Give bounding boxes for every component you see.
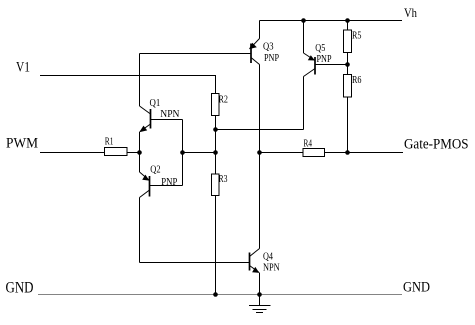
- svg-text:GND: GND: [6, 280, 34, 297]
- svg-text:PNP: PNP: [264, 53, 279, 64]
- svg-text:NPN: NPN: [160, 109, 179, 120]
- svg-text:R5: R5: [352, 31, 362, 42]
- svg-text:NPN: NPN: [263, 263, 280, 274]
- svg-text:R6: R6: [352, 75, 362, 86]
- svg-text:GND: GND: [403, 280, 430, 296]
- svg-text:Q5: Q5: [315, 43, 325, 54]
- svg-text:Q1: Q1: [150, 98, 161, 109]
- svg-text:R1: R1: [105, 137, 114, 148]
- svg-text:Vh: Vh: [404, 5, 417, 20]
- svg-text:V1: V1: [16, 60, 30, 76]
- svg-text:Q4: Q4: [263, 252, 273, 263]
- svg-text:Q2: Q2: [150, 165, 160, 176]
- svg-text:Q3: Q3: [263, 42, 274, 53]
- svg-text:R3: R3: [219, 174, 228, 185]
- svg-text:Gate-PMOS: Gate-PMOS: [404, 137, 469, 153]
- svg-text:PNP: PNP: [317, 54, 332, 65]
- svg-text:R4: R4: [304, 139, 313, 150]
- svg-text:PWM: PWM: [6, 136, 38, 152]
- svg-text:PNP: PNP: [161, 177, 177, 188]
- svg-text:R2: R2: [219, 95, 229, 106]
